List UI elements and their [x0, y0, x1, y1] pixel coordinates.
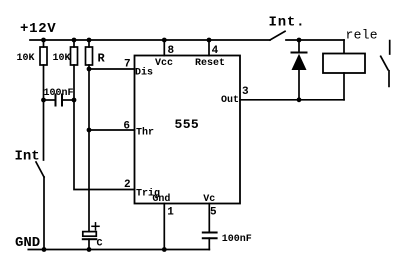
- wire GND rail: [28, 249, 209, 251]
- junction GND/capacitor C: [87, 247, 92, 252]
- svg-text:Thr: Thr: [136, 127, 154, 139]
- svg-text:100nF: 100nF: [222, 234, 252, 245]
- svg-text:Int.: Int.: [269, 14, 306, 30]
- switch Int (left): [36, 162, 44, 250]
- wire Out pin 3 line: [240, 99, 344, 101]
- wire +12V rail right segment after Int. switch: [286, 39, 344, 41]
- diode D1: [292, 40, 307, 100]
- wire +12V rail left segment: [30, 39, 270, 41]
- svg-text:2: 2: [124, 179, 131, 191]
- wire pin 4 stub: [208, 40, 210, 56]
- junction GND/pin1: [162, 247, 167, 252]
- junction R1/cap100nF: [41, 98, 46, 103]
- svg-text:4: 4: [212, 45, 219, 57]
- junction rail/pin4: [207, 38, 212, 43]
- capacitor 100nF left: [44, 95, 75, 106]
- svg-text:6: 6: [123, 121, 130, 133]
- resistor R3 R: [86, 40, 93, 69]
- wire pin 8 stub: [163, 40, 165, 56]
- junction Out/diode D1: [297, 97, 302, 102]
- svg-text:7: 7: [124, 59, 131, 71]
- svg-text:Reset: Reset: [195, 58, 225, 69]
- svg-text:555: 555: [175, 117, 200, 132]
- svg-text:100nF: 100nF: [44, 88, 74, 99]
- svg-text:Int: Int: [15, 149, 40, 165]
- svg-text:Gnd: Gnd: [152, 193, 170, 205]
- wire Thr node to pin 6: [89, 129, 135, 131]
- junction R2/cap100nF: [72, 98, 77, 103]
- junction GND/switch: [42, 247, 47, 252]
- svg-text:Vcc: Vcc: [155, 58, 173, 69]
- junction rail/pin8: [162, 38, 167, 43]
- svg-text:5: 5: [210, 207, 217, 219]
- capacitor 100nF right: [203, 233, 217, 250]
- wire Dis node down to Thr node: [88, 69, 90, 130]
- wire pin 5 stub: [208, 204, 210, 233]
- svg-text:10K: 10K: [53, 53, 71, 64]
- svg-text:rele: rele: [346, 28, 378, 43]
- svg-text:10K: 10K: [17, 53, 35, 64]
- wire pin 1 stub to GND: [163, 204, 165, 250]
- junction rail/diode D1: [297, 38, 302, 43]
- resistor R2 10K: [71, 40, 78, 100]
- switch Int. (top) blade: [270, 31, 285, 40]
- svg-text:1: 1: [167, 207, 174, 219]
- junction rail/R1: [41, 38, 46, 43]
- svg-text:Dis: Dis: [135, 67, 153, 79]
- svg-text:3: 3: [242, 86, 249, 98]
- wire R1 bottom to switch Int: [43, 100, 45, 160]
- capacitor C (polarized): [83, 223, 99, 250]
- svg-text:C: C: [97, 239, 103, 250]
- junction R3/Dis: [87, 67, 92, 72]
- junction R3/Thr: [87, 128, 92, 133]
- wire Thr node down to capacitor C: [88, 130, 90, 232]
- svg-text:8: 8: [168, 45, 175, 57]
- op-amp U1 555 body: [135, 56, 241, 204]
- wire R3/Dis node to pin 7: [89, 68, 135, 70]
- svg-text:+12V: +12V: [20, 21, 56, 37]
- svg-text:GND: GND: [15, 235, 40, 251]
- svg-text:R: R: [98, 52, 106, 66]
- relay contact (switch): [381, 41, 390, 87]
- svg-text:Out: Out: [221, 95, 239, 106]
- resistor R1 10K: [40, 40, 47, 100]
- junction rail/R2: [72, 38, 77, 43]
- relay coil K1: [323, 40, 365, 100]
- junction rail/R3: [87, 38, 92, 43]
- wire R2 bottom to Trig: [74, 100, 135, 190]
